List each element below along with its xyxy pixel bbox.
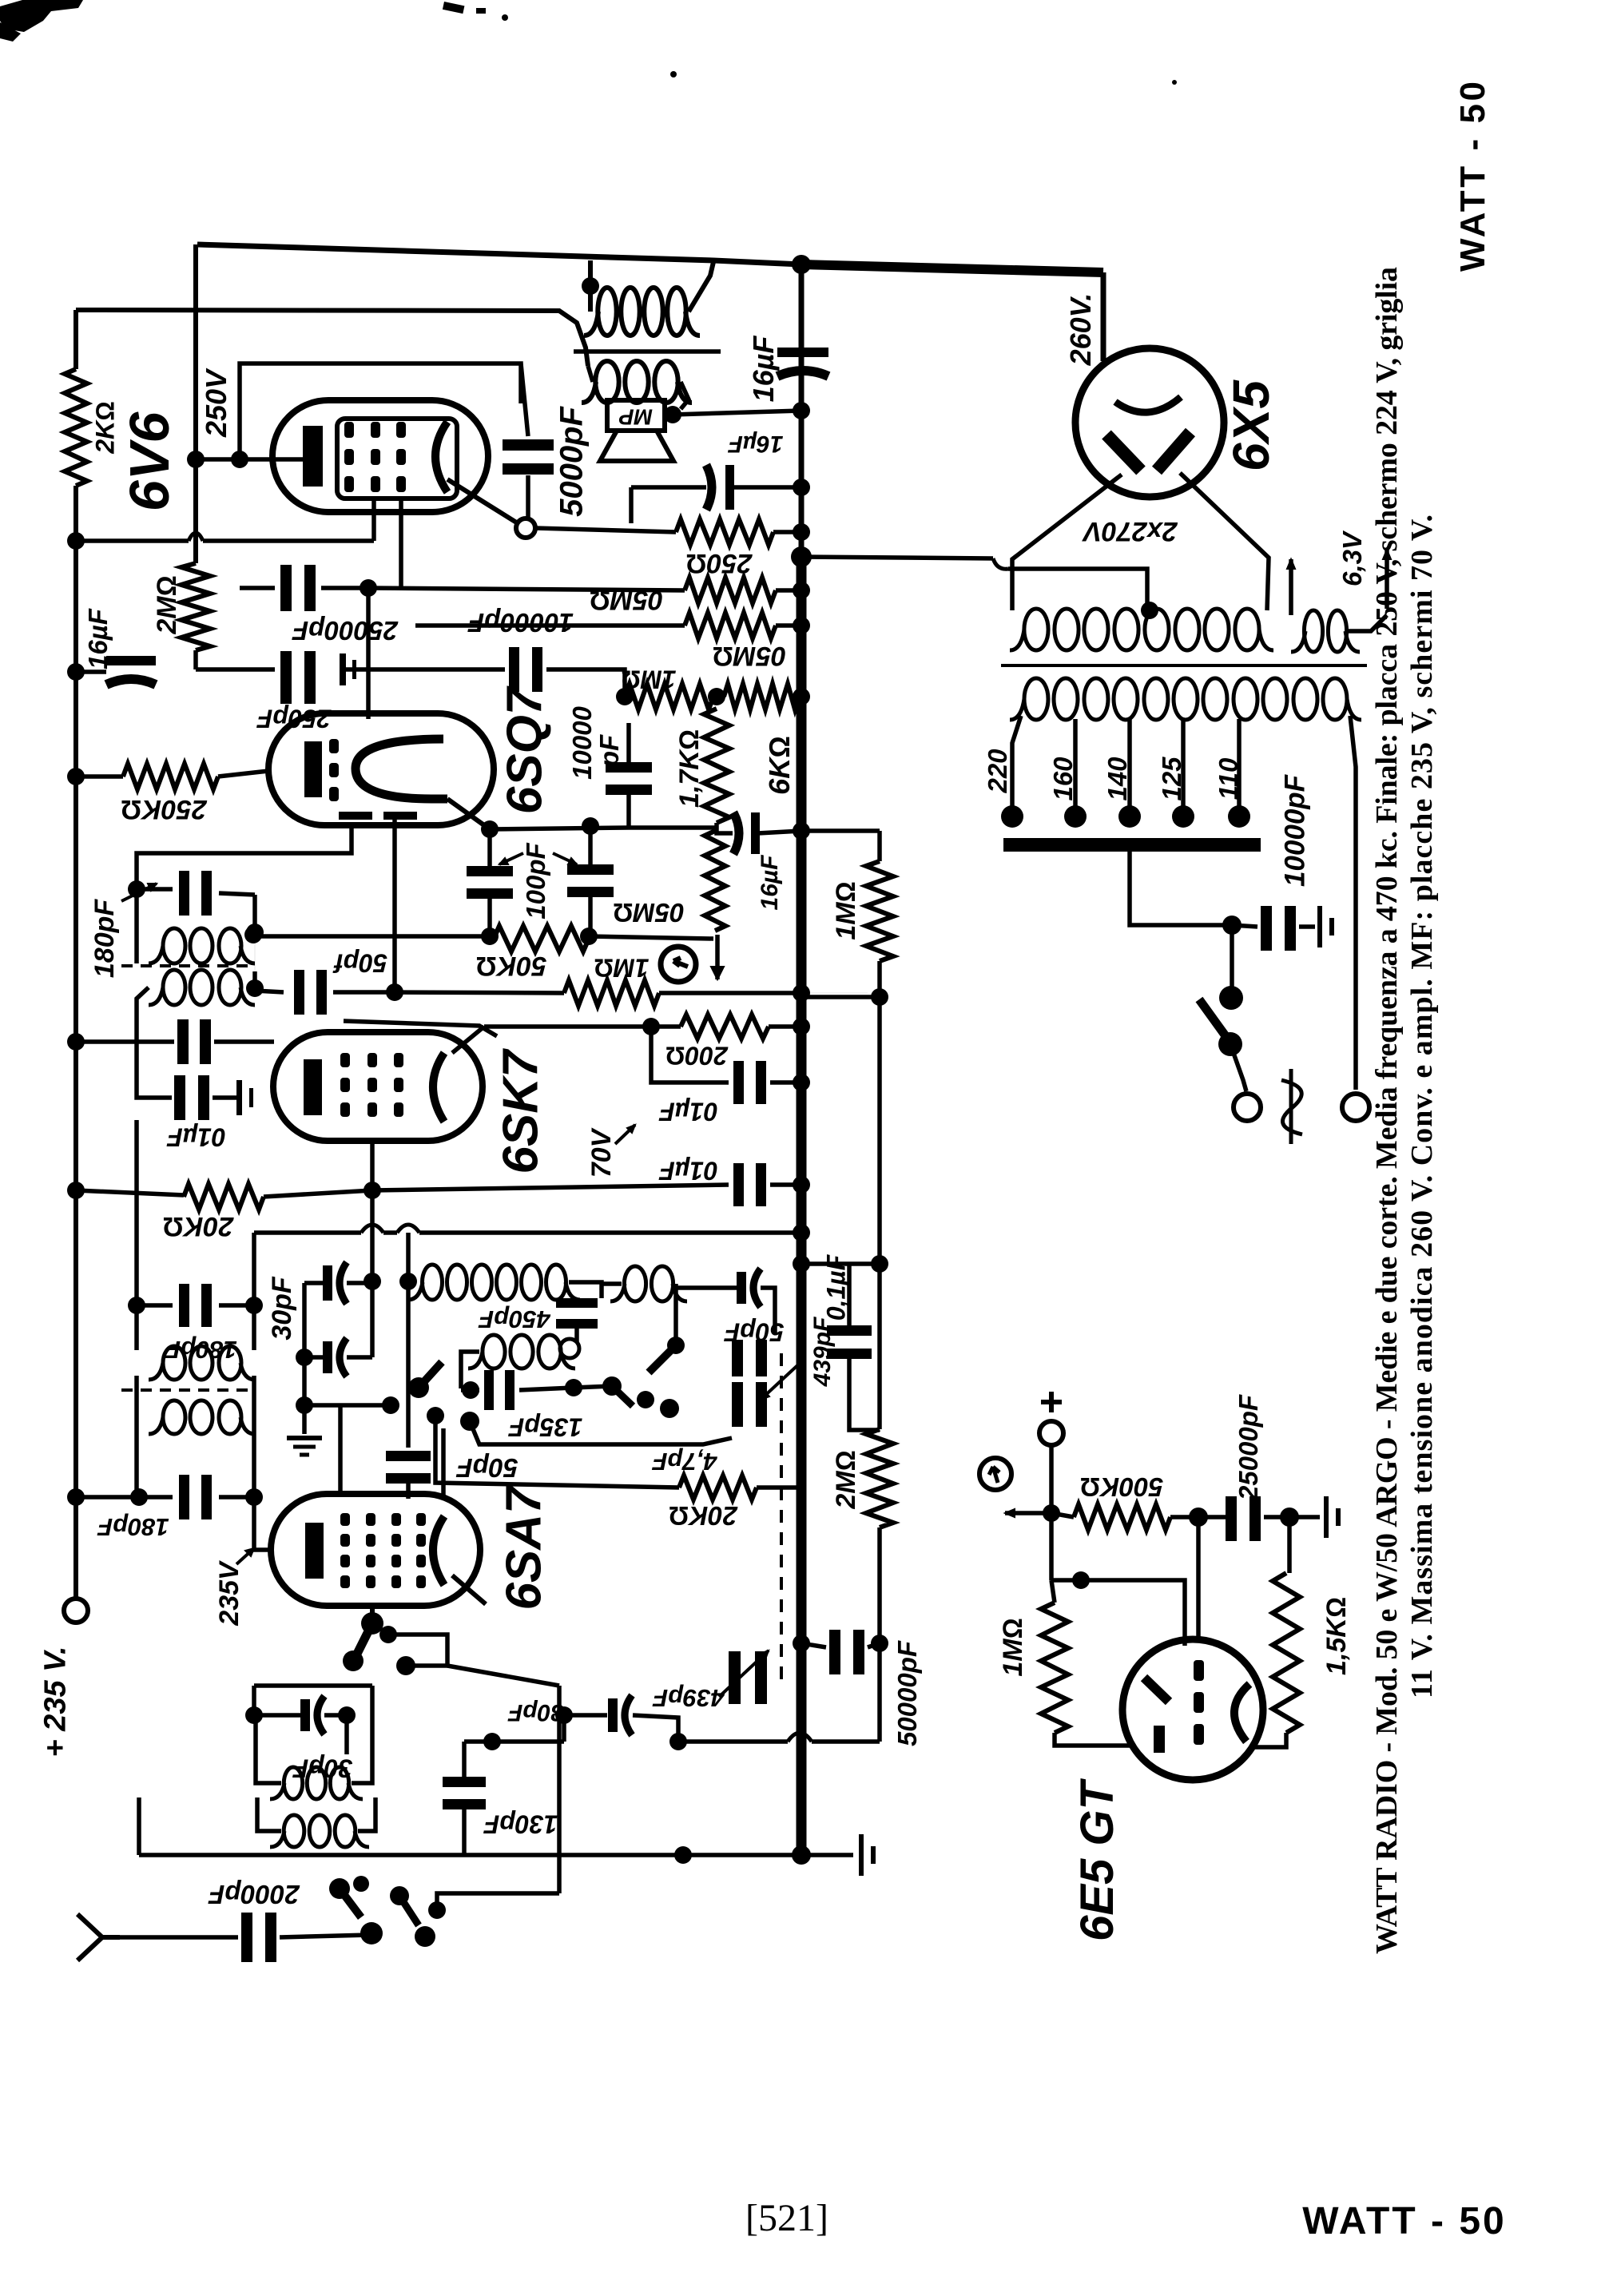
wire 100pF a bottom <box>487 892 492 935</box>
resistor 1.5K <box>1273 1573 1300 1733</box>
node 6E5 supply <box>1043 1504 1060 1522</box>
inductor osc coil 3 <box>624 1266 646 1301</box>
svg-text:WATT - 50: WATT - 50 <box>1302 2200 1506 2242</box>
wire trimmer right drop <box>370 1283 375 1357</box>
capacitor 5000pF <box>503 439 554 451</box>
wire osc coil1 right <box>569 1282 602 1298</box>
wire speaker to bus <box>673 411 801 415</box>
node 135pF left <box>462 1381 479 1399</box>
node coil3 bottom <box>667 1337 685 1354</box>
svg-text:16µF: 16µF <box>757 855 783 911</box>
tube 6SK7 plate <box>433 1053 444 1122</box>
switch contact B1 <box>602 1376 622 1396</box>
svg-text:WATT RADIO - Mod. 50 e W/50 AR: WATT RADIO - Mod. 50 e W/50 ARGO - Medie… <box>1370 267 1404 1954</box>
wire 6E5 supply <box>1049 1445 1054 1580</box>
svg-text:6,3V: 6,3V <box>1337 530 1367 586</box>
svg-text:50KΩ: 50KΩ <box>476 951 547 981</box>
wire IF3 right side <box>252 1305 256 1350</box>
wire IF3 bottom a <box>139 1495 173 1500</box>
node IF2 top left <box>128 880 145 898</box>
svg-text:[521]: [521] <box>745 2197 828 2239</box>
tube 6V6 grid 2 <box>371 422 380 438</box>
node speaker out <box>664 406 681 423</box>
arrow heater left <box>1289 559 1293 615</box>
tube 6V6 grid 1 <box>344 422 354 438</box>
wire trim right lead <box>324 1713 347 1718</box>
node rail 1304 <box>67 1033 85 1051</box>
node bus 6K <box>793 688 810 705</box>
wire gnd lead 6E5 <box>1289 1515 1320 1519</box>
capacitor 01uF plate <box>733 1061 744 1104</box>
capacitor 180pF IF3 top <box>179 1284 189 1327</box>
node 739 1033 <box>582 817 599 835</box>
wire 6X5 right lead <box>1180 473 1269 610</box>
wire 250ohm to bus <box>773 530 801 534</box>
capacitor 100pF a <box>467 866 513 876</box>
node trimmer rect bottom <box>296 1396 313 1414</box>
svg-text:6V6: 6V6 <box>118 411 181 512</box>
wire cath drop 6E5 <box>1287 1517 1292 1573</box>
wire 2180 c <box>812 1739 880 1744</box>
svg-text:450pF: 450pF <box>478 1305 551 1333</box>
node grid cap top <box>399 1273 417 1290</box>
wire trimmer b left <box>304 1355 323 1360</box>
switch contact C2 <box>379 1626 397 1643</box>
wire 1M col upper <box>877 831 882 861</box>
arrow 180pF IF2 <box>121 884 157 901</box>
capacitor 50000pF <box>829 1630 840 1674</box>
node ct tap <box>1141 602 1158 619</box>
inductor IF3 primary <box>163 1346 185 1380</box>
wire trim box left <box>252 1686 256 1715</box>
wire trim d lead <box>564 1713 607 1718</box>
node 2180 mid <box>669 1733 687 1750</box>
svg-text:2x270V: 2x270V <box>1081 516 1178 546</box>
wire 2180 b <box>678 1739 788 1744</box>
wire 16uF agc line <box>717 823 733 833</box>
svg-text:200Ω: 200Ω <box>665 1041 729 1070</box>
node bus top <box>792 255 811 274</box>
wire osc coil2 left <box>461 1352 479 1388</box>
svg-text:01µF: 01µF <box>166 1122 226 1151</box>
wire osc top line c <box>419 1230 801 1235</box>
svg-text:100pF: 100pF <box>521 842 550 919</box>
tube 6SQ7 envelope <box>268 713 494 825</box>
node tap 110 <box>1228 805 1250 828</box>
wire ant frame left <box>137 1797 141 1855</box>
speaker cone <box>600 431 673 461</box>
wire 1M agc to bus <box>659 991 801 995</box>
switch mains lever <box>1199 999 1230 1043</box>
switch contact C4 <box>396 1656 415 1675</box>
node 1M left <box>616 688 634 705</box>
wire second grid entry <box>441 1428 446 1496</box>
trimmer 30pF b <box>323 1341 332 1373</box>
wire 10000pF gnd lead <box>1299 924 1315 929</box>
svg-text:6SQ7: 6SQ7 <box>497 685 552 814</box>
wire 500K lead <box>1051 1513 1074 1517</box>
wire trimmer osc right <box>761 1288 775 1333</box>
wire grid drop 6E5 <box>1196 1517 1201 1643</box>
trimmer 30pF a <box>323 1265 332 1301</box>
wire tap 140 <box>1127 719 1132 808</box>
wire 6X5 left lead <box>1012 475 1122 610</box>
node tap 220 <box>1001 805 1023 828</box>
node bus speaker <box>793 402 810 419</box>
node 1M 6E5 top <box>1072 1571 1090 1589</box>
wire 6SQ7 plate line <box>368 588 685 590</box>
svg-text:5000pF: 5000pF <box>554 406 589 517</box>
wire 6SQ7 plate riser <box>366 588 371 719</box>
wire to chassis ground <box>801 1853 853 1857</box>
svg-text:1MΩ: 1MΩ <box>594 953 649 982</box>
arrow 235V <box>236 1548 254 1564</box>
resistor 1M 6E5 <box>1041 1603 1068 1733</box>
node 6E5 cath r <box>1280 1507 1299 1527</box>
wire 6V6 grid lead down <box>371 499 376 541</box>
node rail 250K <box>67 768 85 785</box>
wire rect bottom <box>304 1403 391 1408</box>
wire trim d right <box>633 1715 678 1742</box>
capacitor 250pF <box>280 651 292 704</box>
terminal plug right <box>1342 1094 1369 1121</box>
node bus 05M lower <box>793 617 810 634</box>
wire cathode return line b <box>203 538 374 543</box>
svg-text:20KΩ: 20KΩ <box>163 1211 235 1241</box>
node rect bottom right <box>382 1396 399 1414</box>
node bus 16uF <box>793 479 810 496</box>
node bus 01uF <box>793 1074 810 1091</box>
wire trimmer a right <box>347 1281 372 1285</box>
wire 1M top link <box>801 828 880 833</box>
capacitor IF2 bypass <box>177 1019 189 1064</box>
wire antenna lead <box>120 1935 238 1940</box>
svg-text:125: 125 <box>1157 757 1186 801</box>
wire trimmer rect left <box>302 1283 307 1405</box>
inductor ant coil 1 <box>284 1767 302 1799</box>
wire osc top line b <box>383 1230 397 1235</box>
capacitor 01uF small mark <box>236 1080 242 1115</box>
node 50K right <box>580 928 598 945</box>
tube 6SQ7 grid <box>329 739 339 753</box>
node tap 160 <box>1064 805 1087 828</box>
wire left supply rail <box>73 310 78 369</box>
node trimmer b left <box>296 1349 313 1366</box>
node 6V6 screen <box>187 451 205 468</box>
wire 10000pF det top <box>626 723 631 769</box>
node trim box left <box>245 1706 263 1724</box>
svg-text:16µF: 16µF <box>747 336 780 403</box>
wire tap 220 <box>1012 716 1021 808</box>
wire voice coil right lead <box>681 382 689 409</box>
tube 6SA7 plate <box>433 1516 444 1585</box>
node IF3 bottom left <box>130 1488 148 1506</box>
inductor HV secondary <box>1024 609 1048 650</box>
resistor 2M <box>181 563 210 650</box>
wire 6V6 cathode lead <box>196 457 303 462</box>
wire ct hook <box>993 558 1008 569</box>
node col 1582 <box>871 1255 888 1273</box>
resistor 2K cathode <box>65 369 87 486</box>
svg-text:10000pF: 10000pF <box>1280 773 1311 887</box>
wire 6SA7 osc grid drop <box>370 1606 375 1623</box>
svg-text:110: 110 <box>1214 757 1243 800</box>
wire col down <box>877 997 882 1264</box>
inductor IF3 secondary <box>163 1400 185 1434</box>
svg-text:250V: 250V <box>200 367 232 438</box>
wire grid cap to tube <box>406 1483 411 1499</box>
node rail IF3 <box>67 1488 85 1506</box>
wire gang dashed <box>780 1353 783 1684</box>
svg-text:135pF: 135pF <box>507 1412 582 1441</box>
capacitor 50pF agc <box>294 970 304 1015</box>
capacitor grid small marks <box>340 653 346 685</box>
wire IF3 top left <box>137 1303 173 1308</box>
tube 6SA7 cathode <box>305 1523 324 1579</box>
wire top heavy line to rectifier <box>801 264 1103 272</box>
wire 130pF top <box>462 1742 467 1780</box>
wire IF2 left side <box>134 889 139 963</box>
capacitor 135pF <box>484 1370 494 1410</box>
wire IF2 sec to avc <box>254 935 256 988</box>
wire IF2 sec left <box>137 987 149 1042</box>
wire IF3 bottom b <box>219 1495 254 1500</box>
svg-text:180pF: 180pF <box>165 1336 237 1364</box>
svg-text:1,7KΩ: 1,7KΩ <box>674 729 705 808</box>
wire IF2 top line <box>137 887 173 892</box>
svg-text:439pF: 439pF <box>652 1684 725 1712</box>
tube 6V6 envelope <box>272 400 488 512</box>
resistor 250ohm <box>676 519 773 545</box>
symbol AC sine <box>1281 1069 1302 1144</box>
wire 25000pF left <box>240 586 275 590</box>
inductor osc coil 1 <box>423 1265 443 1300</box>
wire 6E5 right lead <box>1254 1733 1286 1747</box>
tube 6E5 cathode <box>1154 1726 1165 1753</box>
svg-text:05MΩ: 05MΩ <box>590 585 663 615</box>
wire 1M 6E5 top <box>1051 1580 1055 1603</box>
tube 6SK7 cathode <box>304 1059 322 1115</box>
svg-text:30pF: 30pF <box>267 1276 297 1341</box>
node tap 140 <box>1118 805 1141 828</box>
wire trim left lead <box>254 1713 300 1718</box>
wire gnd stub <box>302 1405 307 1434</box>
terminal plug left <box>1234 1094 1261 1121</box>
capacitor 01uF screen <box>733 1163 744 1206</box>
wire trim to coil <box>344 1715 349 1754</box>
wire 6E5 left lead <box>1055 1733 1134 1746</box>
wire grid cap drop <box>406 1233 411 1448</box>
wire trimmer b right <box>347 1355 372 1360</box>
node grid line <box>386 983 403 1001</box>
tube 6V6 plate <box>435 422 447 492</box>
arrow 70V <box>615 1125 635 1144</box>
node IF2 right bottom <box>246 979 264 997</box>
tube 6V6 beam plate box <box>337 419 457 499</box>
wire IF3 left side <box>134 1305 139 1350</box>
wire line 20K <box>435 1416 679 1488</box>
wire 05M lower to bus <box>776 623 801 628</box>
svg-text:01µF: 01µF <box>658 1156 718 1185</box>
tube 6SQ7 cathode <box>304 741 322 797</box>
node frame junction <box>674 1846 692 1864</box>
wire tap 125 <box>1181 719 1186 808</box>
wire cluster to line <box>574 1386 612 1388</box>
wire IF3 to grid <box>254 1497 273 1550</box>
wire 6SA7 plate stub <box>452 1575 486 1604</box>
resistor 05M avc <box>705 831 725 931</box>
wire switch drop <box>1230 925 1234 991</box>
svg-text:11 V. Massima tensione anodica: 11 V. Massima tensione anodica 260 V. Co… <box>1405 514 1439 1698</box>
tube 6SA7 grid 3 <box>391 1513 401 1526</box>
wire avc line <box>253 934 490 939</box>
wire bypass to 6SK7 <box>214 1039 274 1044</box>
node bus 05M upper <box>793 582 810 599</box>
inductor 6.3V winding <box>1304 610 1322 652</box>
wire switch to plug <box>1230 1044 1246 1091</box>
tube 6E5 deflector <box>1144 1678 1169 1702</box>
wire rail to bypass <box>76 1039 174 1044</box>
capacitor 10000pF line <box>1261 906 1272 951</box>
wire hop osc 2 <box>397 1225 419 1233</box>
node switch a <box>1219 986 1243 1010</box>
wire ant coil2 left <box>257 1797 281 1831</box>
wire line 4p7 <box>470 1421 732 1444</box>
node padder open <box>560 1339 579 1358</box>
svg-text:05MΩ: 05MΩ <box>713 641 786 671</box>
node 6SK7 cathode <box>364 1182 381 1199</box>
wire 6SK7 cath to osc <box>370 1190 375 1281</box>
wire 0.1uF bottom <box>849 1355 880 1430</box>
wire 100pF a top <box>487 829 492 870</box>
wire cluster C link <box>388 1635 447 1666</box>
wire 5000pF lower lead <box>526 475 530 518</box>
svg-text:1MΩ: 1MΩ <box>621 665 676 693</box>
wire rectifier plate drop <box>1101 272 1106 361</box>
svg-text:30pF: 30pF <box>507 1699 564 1726</box>
wire screen to bus <box>770 1182 801 1187</box>
resistor 1M agc <box>564 980 659 1006</box>
resistor 05M lower <box>685 613 776 638</box>
wire IF3 left feed <box>134 1120 139 1305</box>
arrow 100pF left <box>499 853 523 864</box>
wire 6V6 plate diagonal <box>447 479 518 523</box>
wire screen line <box>372 1185 729 1190</box>
capacitor 16uF rail <box>106 656 156 665</box>
wire 135pF right <box>519 1388 574 1390</box>
inductor primary winding <box>1024 678 1048 720</box>
capacitor tuning ant <box>729 1651 741 1704</box>
wire hop osc 1 <box>361 1225 383 1233</box>
arrow 100pF right <box>553 853 577 864</box>
node circled 1 avc <box>661 947 696 982</box>
svg-text:130pF: 130pF <box>483 1809 558 1838</box>
tube 6X5 filament <box>1115 397 1181 412</box>
svg-text:6X5: 6X5 <box>1222 379 1280 471</box>
node bus avc <box>793 984 810 1002</box>
node IF3 top right <box>245 1297 263 1314</box>
ground oscillator <box>287 1436 322 1440</box>
wire 200ohm to bus <box>769 1024 801 1029</box>
wire second 05M line <box>415 623 685 628</box>
tube 6SK7 grid 3 <box>394 1053 403 1067</box>
wire 01uF left <box>137 1042 172 1098</box>
wire ant frame bottom <box>139 1853 801 1857</box>
switch contact B2 <box>637 1391 654 1408</box>
inductor ant coil 2 <box>284 1815 304 1847</box>
wire second top line <box>76 310 588 366</box>
wire 50K right cont <box>589 936 713 939</box>
wire osc top line a <box>254 1230 361 1235</box>
svg-text:25000pF: 25000pF <box>292 616 399 646</box>
wire 6SK7 cathode drop <box>370 1141 375 1190</box>
svg-text:235V: 235V <box>214 1559 244 1627</box>
switch contact D2 <box>353 1876 369 1892</box>
wire 16uF cathode left <box>631 485 706 490</box>
ground 6E5 <box>1324 1496 1329 1538</box>
node IF2 right top <box>246 924 264 941</box>
switch lever A <box>419 1362 442 1388</box>
svg-text:MP: MP <box>619 405 653 430</box>
wire rect to tube <box>338 1405 343 1495</box>
wire 10000pF line right <box>546 669 625 697</box>
ground line filter <box>1317 906 1322 947</box>
switch contact D4 <box>390 1886 409 1905</box>
node 1M bottom <box>871 988 888 1006</box>
resistor 1M af <box>625 684 713 709</box>
node switch b <box>1218 1032 1242 1056</box>
wire 1M col top <box>801 992 868 994</box>
wire IF3 core dashed <box>121 1388 248 1392</box>
resistor 500K <box>1074 1504 1170 1530</box>
wire 10000pF line left <box>340 667 505 672</box>
wire 50000pF left <box>801 1643 826 1647</box>
svg-text:70V: 70V <box>586 1126 617 1178</box>
wire ant coil1 left <box>256 1715 281 1783</box>
wire 20K left <box>76 1190 184 1195</box>
wire 01uF branch <box>651 1027 729 1082</box>
node OT primary <box>582 277 599 295</box>
wire 6V6 screen top link <box>240 363 521 459</box>
svg-text:250KΩ: 250KΩ <box>121 794 207 824</box>
node avc left <box>244 926 262 943</box>
svg-text:16µF: 16µF <box>83 608 113 669</box>
capacitor 180pF IF2 top <box>179 871 189 916</box>
svg-text:180pF: 180pF <box>89 899 120 978</box>
wire 6SQ7 plate exit <box>447 799 490 829</box>
wire grid line right <box>395 992 564 993</box>
wire 2M to grid line <box>193 650 198 669</box>
inductor output transformer primary <box>598 288 616 336</box>
trimmer padding <box>608 1698 618 1732</box>
capacitor 0.1uF <box>827 1325 872 1336</box>
wire cluster D riser <box>557 1686 562 1893</box>
voltage selector bar <box>1003 838 1261 852</box>
wire 6SQ7 cathode return <box>137 823 352 889</box>
terminal +235V left <box>64 1599 88 1623</box>
wire 450pF bottom <box>574 1326 579 1342</box>
capacitor 16uF bus top <box>777 348 828 357</box>
wire 25000pF right <box>321 586 368 590</box>
wire osc left drop <box>252 1233 256 1305</box>
svg-text:1MΩ: 1MΩ <box>831 881 861 939</box>
svg-text:2MΩ: 2MΩ <box>831 1450 861 1509</box>
inductor osc coil 2 <box>483 1335 505 1368</box>
node cathode rail <box>67 532 85 550</box>
node rail 16uF <box>67 663 85 681</box>
resistor 50K <box>494 926 589 951</box>
terminal plate junction <box>516 518 535 538</box>
